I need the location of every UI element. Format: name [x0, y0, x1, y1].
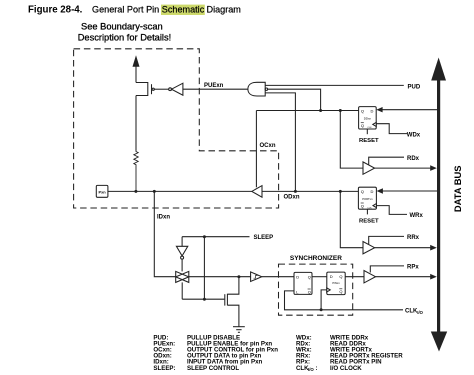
svg-text:Q: Q	[361, 204, 364, 209]
svg-text:Q: Q	[339, 274, 342, 279]
data bus line	[437, 78, 440, 333]
wire WDx clock	[376, 124, 407, 134]
ground	[233, 326, 245, 328]
wire RRx output to bus	[375, 247, 432, 249]
synchronizer dashed box	[279, 264, 353, 315]
and gate (pull-up logic)	[248, 82, 265, 96]
inverter (pull-up enable)	[169, 88, 172, 91]
svg-text:D: D	[371, 189, 374, 194]
svg-text:PUD: PUD	[408, 84, 421, 90]
legend left column	[153, 334, 278, 372]
wire PUD input	[265, 84, 404, 86]
flip-flop DDxn	[359, 107, 377, 130]
svg-text:Description for Details!: Description for Details!	[78, 33, 172, 43]
resistor pull-up	[134, 151, 138, 192]
latch (sync stage 1)	[294, 272, 312, 294]
wire to synchronizer	[262, 276, 294, 278]
svg-text:See Boundary-scan: See Boundary-scan	[81, 21, 163, 31]
svg-text:RDx: RDx	[407, 156, 420, 162]
data bus arrow down	[431, 332, 447, 352]
transmission gate	[176, 271, 189, 282]
wire IDxn	[154, 191, 175, 276]
svg-text:DDxn: DDxn	[364, 116, 372, 120]
svg-text:OCxn: OCxn	[260, 143, 276, 149]
svg-text:RESET: RESET	[359, 218, 379, 224]
node junction DDxn-Q / and-input	[319, 109, 322, 112]
wire WRx clock	[377, 206, 407, 215]
VCC arrow	[133, 57, 139, 66]
wire inverter input	[181, 237, 183, 247]
svg-text:I/O CLOCK: I/O CLOCK	[330, 365, 362, 372]
node junction DDxn-Q / RDx	[339, 109, 342, 112]
svg-text:Q: Q	[308, 274, 311, 279]
buffer RPx tri-state	[364, 271, 376, 283]
flip-flop PINxn	[327, 272, 345, 295]
svg-text:L: L	[296, 289, 299, 294]
wire gate control line	[182, 298, 224, 300]
node junction NMOS drain	[237, 275, 240, 278]
svg-text:D: D	[330, 274, 333, 279]
node junction PORTxn-Q / RRx	[339, 190, 342, 193]
wire RDx output to bus	[375, 167, 432, 169]
wire SLEEP	[182, 236, 249, 238]
svg-text:Figure 28-4.: Figure 28-4.	[28, 4, 83, 15]
svg-text:CLK: CLK	[367, 208, 372, 210]
svg-text:I/O: I/O	[308, 367, 314, 372]
legend right column	[296, 334, 403, 372]
svg-text:Q: Q	[339, 289, 342, 294]
svg-text:Q: Q	[361, 189, 364, 194]
node RESET (DDxn)	[366, 129, 368, 134]
buffer output driver ODxn tri-state	[252, 186, 262, 198]
svg-text:D: D	[296, 274, 299, 279]
svg-text:D: D	[371, 109, 374, 114]
wire input signal	[189, 276, 251, 278]
wire RDx branch	[340, 111, 363, 169]
svg-text:RRx: RRx	[407, 235, 420, 241]
figure title	[28, 4, 241, 15]
node junction resistor/pin	[134, 190, 137, 193]
flip-flop PORTxn	[358, 187, 376, 209]
svg-text:PORTxn: PORTxn	[362, 197, 373, 201]
svg-text:PINxn: PINxn	[332, 281, 340, 285]
svg-text:RPx: RPx	[407, 265, 419, 271]
svg-text:SLEEP:: SLEEP:	[153, 365, 175, 372]
transistor sleep-clamp NMOS	[224, 294, 226, 305]
wire PUExn	[183, 88, 248, 90]
data bus arrow up	[431, 58, 446, 81]
node junction SLEEP	[203, 235, 206, 238]
wire ODxn line	[262, 190, 358, 192]
svg-text:I/O: I/O	[417, 310, 423, 315]
wire D input of DDxn from bus	[382, 109, 437, 111]
svg-text:WDx: WDx	[407, 133, 421, 139]
node junction CLK	[320, 308, 323, 311]
node junction IDxn/pin	[153, 190, 156, 193]
wire SLEEP down	[203, 237, 205, 300]
inverter sleep	[176, 246, 187, 256]
svg-text:SLEEP: SLEEP	[254, 235, 274, 241]
svg-text:Q: Q	[361, 123, 364, 128]
svg-text:SYNCHRONIZER: SYNCHRONIZER	[290, 255, 342, 262]
wire CLK I/O routing	[285, 291, 404, 310]
wire RPx output to bus	[376, 276, 433, 278]
svg-text:Q: Q	[361, 109, 364, 114]
buffer RRx tri-state	[363, 242, 375, 254]
svg-text::: :	[316, 365, 318, 372]
wire D input of PORTxn from bus	[383, 190, 438, 192]
wire OCxn (output enable)	[255, 111, 257, 188]
wire RRx branch	[340, 191, 363, 247]
svg-text:RESET: RESET	[359, 138, 379, 144]
wire and-input from PORTxn Q	[265, 93, 295, 191]
svg-text:Diagram: Diagram	[207, 4, 241, 14]
svg-text:PUExn: PUExn	[204, 83, 224, 89]
node junction SLEEP/gate	[203, 298, 206, 301]
boundary-scan dashed box	[74, 49, 279, 208]
transistor pull-up PMOS	[136, 83, 148, 96]
node RESET (PORTxn)	[366, 209, 368, 214]
svg-text:DATA BUS: DATA BUS	[452, 165, 463, 212]
wire and-input from DDxn Q	[268, 89, 321, 110]
node junction ODxn/and-input	[294, 190, 297, 193]
node CLK I/O label	[405, 308, 424, 315]
svg-text:IDxn: IDxn	[157, 214, 170, 220]
svg-text:Pxn: Pxn	[99, 190, 107, 195]
svg-text:WRx: WRx	[410, 213, 424, 219]
wire DDxn Q line	[256, 110, 358, 112]
svg-text:ODxn: ODxn	[284, 195, 300, 201]
svg-text:CLK: CLK	[367, 127, 372, 129]
wire pin line	[108, 190, 252, 192]
pad Pxn	[96, 185, 108, 197]
svg-text:SLEEP CONTROL: SLEEP CONTROL	[187, 365, 239, 372]
svg-text:CLK: CLK	[405, 308, 418, 314]
svg-text:Q: Q	[308, 289, 311, 294]
svg-text:Schematic: Schematic	[162, 4, 205, 14]
wire PINxn Q out	[345, 276, 364, 278]
buffer RDx tri-state	[363, 162, 375, 174]
wire latch to PINxn	[312, 276, 327, 278]
note: see boundary-scan description	[78, 21, 172, 42]
svg-text:General Port Pin: General Port Pin	[92, 4, 159, 14]
buffer schmitt trigger	[251, 272, 262, 282]
